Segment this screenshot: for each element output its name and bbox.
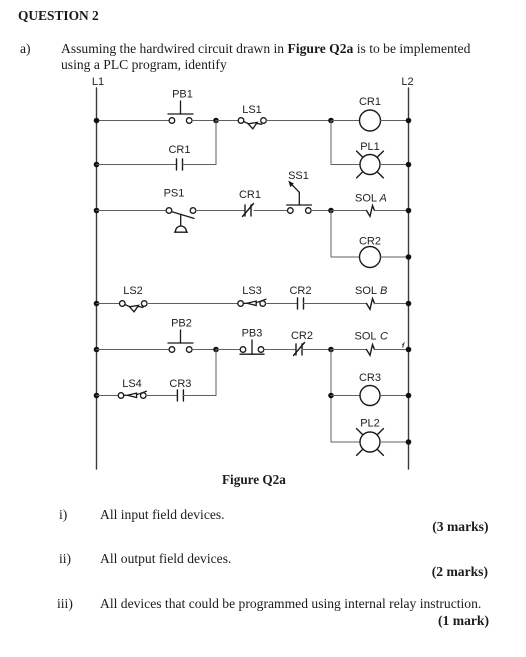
- pushbutton PB2: [168, 318, 193, 353]
- svg-text:LS1: LS1: [242, 104, 262, 116]
- wire rung2 left: [97, 210, 167, 212]
- wire node to LS1: [216, 120, 238, 122]
- limit switch LS2: [120, 285, 148, 312]
- selector switch SS1: [287, 170, 312, 213]
- svg-text:PB3: PB3: [242, 328, 263, 340]
- svg-text:SOL: SOL: [355, 331, 377, 343]
- wire CR3 contact to branch vertical: [183, 395, 216, 397]
- svg-text:LS2: LS2: [123, 285, 143, 297]
- wire PL1 to L2: [380, 164, 409, 166]
- wire PL1 branch vertical: [330, 121, 332, 165]
- wire LS4 to CR3 contact: [146, 395, 177, 397]
- pressure switch PS1: [164, 188, 196, 233]
- wire CR1 NC to SS1: [254, 210, 288, 212]
- node rung3 L1: [94, 301, 100, 307]
- pilot light PL1: [357, 141, 384, 178]
- wire LS2 to LS3: [147, 303, 238, 305]
- node rung1 L2: [406, 118, 412, 124]
- contact CR1 (NC): [239, 189, 261, 217]
- node rung4 branch: [328, 347, 334, 353]
- svg-text:B: B: [380, 285, 387, 297]
- svg-text:C: C: [380, 331, 388, 343]
- contact CR1 (NO): [168, 144, 190, 170]
- wire PS1 to CR1 NC: [196, 210, 245, 212]
- svg-text:L2: L2: [401, 76, 413, 88]
- coil CR2: [359, 235, 381, 267]
- wire rung4 left: [97, 349, 170, 351]
- wire CR2 contact to SOL B: [304, 303, 367, 305]
- wire CR1-branch right: [183, 164, 217, 166]
- node LS4-branch L1: [94, 393, 100, 399]
- title: [18, 8, 99, 24]
- wire node to CR1 coil: [331, 120, 360, 122]
- wire CR2 coil to L2: [381, 256, 409, 258]
- contact CR2 (NO): [289, 285, 311, 309]
- limit switch LS3 (NC): [238, 285, 266, 306]
- node rung4 L1: [94, 347, 100, 353]
- solenoid SOL B: [355, 285, 387, 309]
- svg-text:CR1: CR1: [239, 189, 261, 201]
- node CR3 coil branch: [328, 393, 334, 399]
- node PL1 L2: [406, 162, 412, 168]
- contact CR3 (NO): [169, 378, 191, 401]
- svg-text:A: A: [379, 193, 387, 205]
- wire LS4-branch left: [97, 395, 119, 397]
- node rung2 L2: [406, 208, 412, 214]
- limit switch LS1: [238, 104, 266, 129]
- item iii: [57, 596, 73, 612]
- node PL2 L2: [406, 439, 412, 445]
- limit switch LS4 (NC): [118, 378, 146, 398]
- wire SOL B to L2: [375, 303, 409, 305]
- node CR3 L2: [406, 393, 412, 399]
- wire CR1-branch left: [97, 164, 177, 166]
- wire SS1 to node: [311, 210, 331, 212]
- svg-text:SOL: SOL: [355, 285, 377, 297]
- wire SOL A to L2: [375, 210, 409, 212]
- wire CR3 coil to L2: [380, 395, 409, 397]
- node CR2 L2: [406, 254, 412, 260]
- wire node to SOL C: [331, 349, 367, 351]
- node CR1-branch L1: [94, 162, 100, 168]
- figure caption: [222, 472, 286, 488]
- wire PL1 branch left: [331, 164, 360, 166]
- node rung4 L2: [406, 347, 412, 353]
- svg-text:PB1: PB1: [172, 89, 193, 101]
- coil CR1: [359, 96, 381, 131]
- item a: [20, 41, 31, 57]
- wire PB2 to node: [192, 349, 216, 351]
- pushbutton PB1: [168, 89, 193, 124]
- wire CR2 NC to node: [302, 349, 331, 351]
- svg-text:PL1: PL1: [360, 141, 380, 153]
- node rung1 right branch: [328, 118, 334, 124]
- svg-text:CR3: CR3: [359, 372, 381, 384]
- wire CR1 coil to L2: [381, 120, 409, 122]
- svg-text:PS1: PS1: [164, 188, 185, 200]
- wire to PL2: [331, 441, 360, 443]
- coil CR3: [359, 372, 381, 406]
- svg-text:PL2: PL2: [360, 418, 380, 430]
- wire PB3 to CR2 NC: [264, 349, 296, 351]
- wire SOL C to L2: [375, 349, 409, 351]
- wire node to PB3: [216, 349, 240, 351]
- stray mark near L2: [403, 343, 404, 347]
- svg-text:CR1: CR1: [168, 144, 190, 156]
- svg-text:LS3: LS3: [242, 285, 262, 297]
- svg-text:CR2: CR2: [289, 285, 311, 297]
- svg-text:CR2: CR2: [291, 330, 313, 342]
- node rung3 L2: [406, 301, 412, 307]
- wire PB2 parallel branch vertical: [215, 350, 217, 396]
- rail L2: [408, 88, 410, 469]
- wire branch vertical up to rung1: [215, 121, 217, 165]
- node rung1 L1: [94, 118, 100, 124]
- svg-text:SS1: SS1: [288, 170, 309, 182]
- node after PB2: [213, 347, 219, 353]
- contact CR2 (NC): [291, 330, 313, 356]
- solenoid SOL A: [355, 193, 387, 217]
- wire LS3 to CR2 contact: [266, 303, 298, 305]
- wire node to SOL A: [331, 210, 367, 212]
- svg-text:L1: L1: [92, 76, 104, 88]
- rail L1: [96, 88, 98, 469]
- circuit figure: [0, 0, 526, 500]
- svg-text:CR3: CR3: [169, 378, 191, 390]
- node rung2 L1: [94, 208, 100, 214]
- node rung2 branch: [328, 208, 334, 214]
- svg-text:PB2: PB2: [171, 318, 192, 330]
- svg-text:CR2: CR2: [359, 235, 381, 247]
- wire CR2 branch vertical: [330, 211, 332, 258]
- svg-text:CR1: CR1: [359, 96, 381, 108]
- svg-text:SOL: SOL: [355, 193, 377, 205]
- node after PB1: [213, 118, 219, 124]
- pilot light PL2: [357, 418, 384, 456]
- item i: [59, 507, 67, 523]
- pushbutton PB3 (NC): [240, 328, 264, 355]
- wire PB1 to node: [192, 120, 216, 122]
- wire to CR3 coil: [331, 395, 360, 397]
- wire rung1 left: [97, 120, 170, 122]
- item ii: [59, 551, 71, 567]
- wire LS1 to node: [266, 120, 331, 122]
- wire right branch vertical rung4 down: [330, 350, 332, 443]
- wire CR2 branch left: [331, 256, 360, 258]
- wire PL2 to L2: [380, 441, 409, 443]
- svg-text:LS4: LS4: [122, 378, 142, 390]
- wire rung3 left: [97, 303, 120, 305]
- solenoid SOL C: [355, 331, 389, 356]
